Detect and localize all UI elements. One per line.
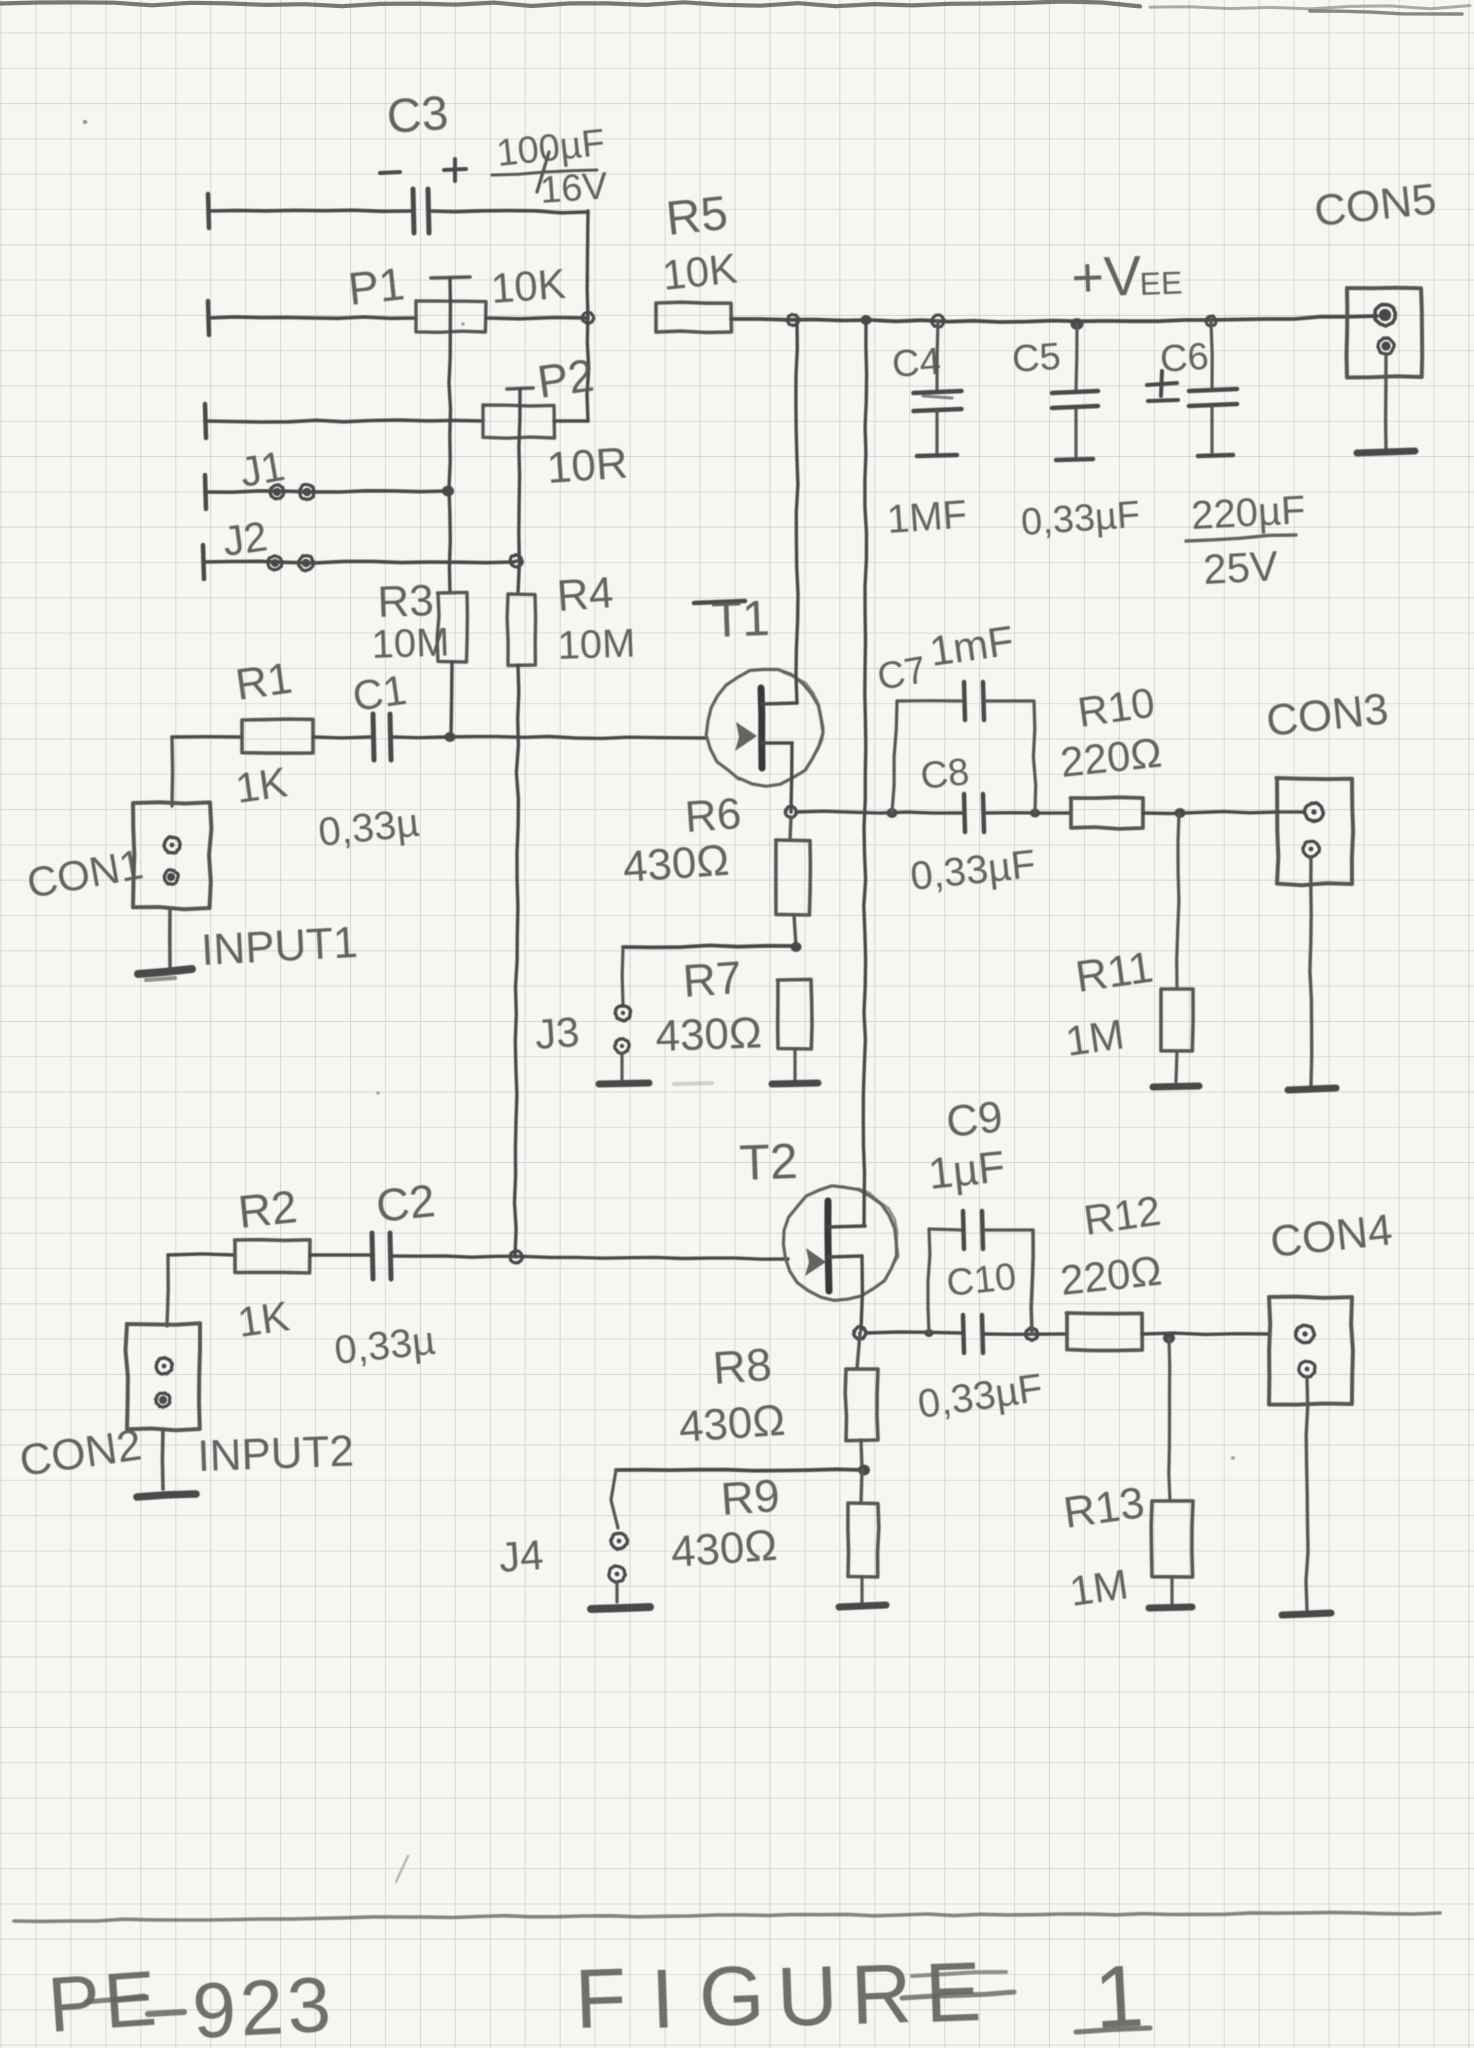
output wire ch1: [796, 811, 963, 813]
svg-text:C8: C8: [919, 751, 972, 798]
svg-text:10M: 10M: [557, 621, 636, 668]
ground R7: [793, 1049, 796, 1080]
svg-text:C7: C7: [874, 649, 929, 699]
wire C1 to T1 gate: [392, 737, 707, 739]
svg-text:C4: C4: [891, 341, 942, 386]
capacitor C8: [964, 794, 965, 832]
svg-text:C9: C9: [944, 1092, 1005, 1147]
capacitor C9 loop: [928, 1229, 930, 1333]
ground CON5: [1384, 356, 1388, 450]
ground CON2: [161, 1429, 165, 1489]
T1 source: [762, 741, 792, 745]
svg-text:J4: J4: [497, 1531, 545, 1581]
svg-text:C5: C5: [1011, 336, 1062, 381]
svg-text:R8: R8: [711, 1338, 773, 1394]
faint stray mark near R7 ground: [674, 1083, 712, 1084]
svg-text:C2: C2: [374, 1174, 438, 1232]
svg-text:R6: R6: [683, 789, 743, 842]
capacitor C3: [413, 189, 414, 233]
svg-text:J2: J2: [220, 512, 270, 565]
P2 wiper: [507, 388, 533, 389]
svg-text:1M: 1M: [1067, 1560, 1131, 1615]
svg-text:C3: C3: [385, 87, 450, 144]
paper specks: [83, 120, 87, 124]
svg-text:10M: 10M: [371, 620, 450, 667]
ground CON4: [1306, 1377, 1308, 1610]
svg-text:J1: J1: [236, 442, 288, 496]
wire: [429, 211, 588, 213]
svg-text:J3: J3: [533, 1008, 581, 1058]
svg-text:+V: +V: [1070, 244, 1143, 309]
potentiometer P2: [205, 404, 206, 438]
T1 drain: [762, 703, 797, 704]
T2 drain: [829, 1226, 865, 1227]
svg-text:430Ω: 430Ω: [655, 1008, 763, 1061]
resistor R1: [242, 719, 313, 753]
jumper J4: [616, 1469, 864, 1470]
capacitor C7 loop: [892, 701, 897, 813]
jumper J3: [623, 945, 796, 947]
resistor R11: [1177, 813, 1179, 989]
svg-text:430Ω: 430Ω: [677, 1396, 786, 1452]
node P1/R5 junction: [583, 312, 595, 323]
svg-text:T1: T1: [710, 590, 770, 648]
capacitor C10: [963, 1315, 964, 1353]
transistor T1: [694, 601, 745, 603]
svg-text:923: 923: [190, 1960, 337, 2048]
svg-text:220µF: 220µF: [1190, 488, 1306, 538]
resistor R4: [507, 594, 535, 666]
resistor R3: [437, 592, 467, 662]
capacitor C2: [372, 1233, 373, 1279]
svg-text:1MF: 1MF: [886, 493, 969, 542]
input wire ch2: [167, 1255, 168, 1326]
svg-text:C1: C1: [350, 666, 410, 720]
svg-text:I: I: [649, 1951, 676, 2046]
capacitor C6: [1211, 321, 1212, 388]
input wire ch1: [170, 737, 174, 806]
svg-text:16V: 16V: [539, 165, 610, 212]
paper torn top edge: [0, 2, 1140, 7]
ground R9: [860, 1577, 863, 1602]
jumper J2: [203, 545, 204, 579]
svg-text:INPUT2: INPUT2: [197, 1427, 355, 1481]
resistor R13: [1169, 1338, 1170, 1501]
svg-text:R7: R7: [681, 951, 743, 1007]
svg-text:1µF: 1µF: [926, 1142, 1007, 1199]
svg-text:10R: 10R: [545, 438, 629, 493]
wire vertical right of P1: [587, 211, 589, 421]
svg-text:10K: 10K: [660, 244, 739, 299]
svg-text:R1: R1: [233, 654, 296, 710]
resistor R9: [861, 1470, 862, 1503]
ground CON1: [168, 908, 172, 966]
svg-text:P1: P1: [346, 257, 407, 315]
svg-text:430Ω: 430Ω: [669, 1521, 778, 1577]
svg-text:R5: R5: [664, 187, 731, 246]
ground J4: [615, 1582, 618, 1602]
wire C2 to T2 gate: [392, 1256, 788, 1259]
connector CON1: [133, 802, 211, 909]
svg-text:EE: EE: [1139, 265, 1183, 302]
+VEE power rail: [731, 316, 1377, 322]
svg-text:C10: C10: [945, 1256, 1019, 1305]
wire top C3 rail: [208, 194, 209, 228]
capacitor C5: [1076, 324, 1077, 390]
capacitor C1: [373, 714, 374, 760]
svg-text:R3: R3: [377, 576, 435, 627]
svg-text:R9: R9: [719, 1469, 781, 1525]
T2 source: [829, 1256, 862, 1257]
bottom rule line: [14, 1912, 1440, 1921]
capacitor C4: [937, 321, 938, 389]
svg-text:0,33µF: 0,33µF: [1020, 494, 1142, 544]
svg-text:10K: 10K: [489, 260, 567, 312]
ground R13: [1170, 1577, 1173, 1603]
svg-text:R4: R4: [555, 568, 615, 621]
output wire ch2: [866, 1332, 961, 1333]
resistor R2: [235, 1240, 310, 1273]
T1 gate arrow: [735, 722, 757, 751]
jumper J1: [205, 475, 206, 509]
svg-text:C6: C6: [1159, 336, 1210, 381]
resistor R7: [777, 979, 812, 1049]
svg-text:F: F: [573, 1950, 628, 2046]
connector CON2: [126, 1323, 201, 1430]
svg-text:U: U: [775, 1948, 839, 2044]
svg-text:R: R: [849, 1946, 913, 2042]
ground R11: [1176, 1051, 1177, 1082]
svg-text:INPUT1: INPUT1: [200, 918, 359, 975]
resistor R8: [857, 1333, 860, 1369]
svg-text:1M: 1M: [1063, 1010, 1127, 1065]
resistor R6: [790, 817, 791, 840]
ground J3: [620, 1053, 623, 1079]
svg-text:T2: T2: [738, 1133, 798, 1191]
resistor R5: [656, 302, 731, 332]
resistor R12: [1067, 1313, 1143, 1351]
resistor R10: [1071, 797, 1144, 829]
potentiometer P1: [208, 301, 209, 335]
ground CON3: [1310, 857, 1312, 1085]
P1 wiper: [431, 277, 470, 278]
svg-text:G: G: [697, 1948, 766, 2044]
svg-text:1K: 1K: [235, 1292, 292, 1346]
svg-text:P2: P2: [534, 349, 597, 408]
svg-text:R2: R2: [236, 1180, 300, 1238]
svg-text:E: E: [923, 1944, 982, 2040]
T2 gate arrow: [805, 1248, 826, 1276]
svg-text:25V: 25V: [1202, 542, 1279, 593]
svg-text:1K: 1K: [233, 758, 290, 812]
svg-text:430Ω: 430Ω: [621, 836, 730, 892]
plusminus C6: [1147, 383, 1177, 385]
